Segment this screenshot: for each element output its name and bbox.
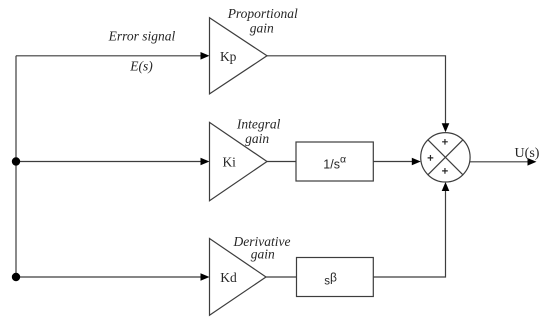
- label Error signal: [108, 29, 176, 44]
- label U(s): [515, 146, 540, 161]
- label Proportional gain: [227, 6, 298, 36]
- wire: Kd output to block s^b: [266, 276, 297, 278]
- summing junction: [421, 133, 470, 182]
- arrowhead into summing junction bottom: [442, 182, 450, 191]
- gain triangle Ki: [210, 122, 268, 200]
- gain triangle Kd: [210, 239, 267, 316]
- svg-text:E(s): E(s): [129, 59, 153, 74]
- node: input branch junction middle: [12, 157, 20, 165]
- svg-text:gain: gain: [245, 131, 269, 146]
- label Integral gain: [236, 117, 281, 147]
- gain triangle Kp: [210, 18, 268, 94]
- arrowhead into Kd: [201, 273, 210, 281]
- node: input branch junction bottom: [12, 273, 20, 281]
- label Derivative gain: [233, 234, 291, 262]
- svg-text:Proportional: Proportional: [227, 6, 298, 21]
- svg-text:gain: gain: [251, 247, 275, 262]
- wire: top row input to Kp: [16, 55, 201, 57]
- label Kp: [220, 49, 237, 64]
- svg-text:Kp: Kp: [220, 49, 237, 64]
- svg-text:Ki: Ki: [222, 155, 236, 170]
- block s^beta: [297, 258, 374, 297]
- label Ki: [222, 155, 236, 170]
- arrowhead into summing junction left: [412, 158, 421, 166]
- wire: middle row input to Ki: [16, 161, 201, 163]
- label E(s): [129, 59, 153, 74]
- block 1/s^alpha: [296, 142, 373, 181]
- arrowhead into Kp: [201, 52, 210, 60]
- wire: bottom row input to Kd: [16, 276, 201, 278]
- svg-text:Error signal: Error signal: [108, 29, 176, 44]
- wire: Kp output to summing junction top: [267, 56, 446, 124]
- wire: summing junction output U(s): [470, 161, 529, 163]
- wire: left vertical bus: [15, 56, 17, 277]
- wire: block 1/s^a to summing junction left: [373, 161, 412, 163]
- label Kd: [220, 270, 237, 285]
- arrowhead into summing junction top: [442, 123, 450, 132]
- arrowhead output U(s): [528, 158, 537, 166]
- wire: Ki output to block 1/s^a: [267, 161, 296, 163]
- svg-text:Integral: Integral: [236, 117, 281, 132]
- svg-text:gain: gain: [250, 21, 274, 36]
- arrowhead into Ki: [201, 158, 210, 166]
- svg-text:U(s): U(s): [515, 146, 540, 161]
- svg-text:Kd: Kd: [220, 270, 237, 285]
- wire: block s^b to summing junction bottom: [373, 191, 445, 277]
